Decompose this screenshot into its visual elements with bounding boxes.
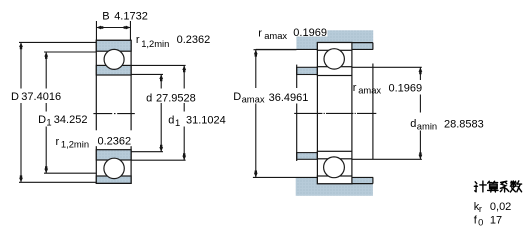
box d1 31.1024 (167, 112, 228, 127)
ball top (right figure) (324, 49, 344, 69)
d arrow up (159, 74, 163, 81)
shaft shoulder bottom-left (right figure) (297, 153, 318, 160)
D1 extension lines (44, 52, 96, 173)
svg-text:amax: amax (264, 30, 287, 41)
svg-text:0.1969: 0.1969 (293, 27, 327, 39)
svg-text:27.9528: 27.9528 (156, 92, 196, 104)
D1 arrow up (44, 52, 48, 59)
svg-text:36.4961: 36.4961 (269, 92, 309, 104)
char 计 (474, 181, 486, 192)
bearing body rect (317, 43, 352, 184)
d1 dimension line (183, 65, 185, 160)
svg-text:0.1969: 0.1969 (389, 82, 423, 94)
svg-text:0,02: 0,02 (490, 201, 511, 213)
svg-text:0.2362: 0.2362 (98, 135, 132, 147)
svg-text:r: r (258, 28, 262, 40)
svg-text:0: 0 (478, 217, 483, 228)
D arrow up (19, 42, 23, 49)
ball bottom (left figure) (104, 158, 124, 178)
d_a bottom line (right figure) (352, 158, 422, 160)
inner ring band top (317, 67, 352, 76)
svg-text:amax: amax (242, 94, 265, 105)
box damin 28.8583 (409, 113, 487, 131)
svg-text:1: 1 (175, 117, 180, 128)
Damax extension top (254, 49, 297, 51)
svg-text:D: D (11, 91, 19, 103)
damin arrow down (419, 152, 423, 159)
box r12min 0.2362 bottom (95, 130, 133, 146)
d_a top line (right figure) (352, 66, 422, 68)
svg-text:34.252: 34.252 (54, 114, 88, 126)
outer ring band bottom (blue) (96, 176, 131, 183)
char 数 (510, 181, 521, 192)
svg-text:amax: amax (358, 84, 381, 95)
svg-text:17: 17 (490, 215, 502, 227)
d dimension line (160, 74, 162, 151)
inner ring band bottom (317, 151, 352, 159)
svg-text:D: D (233, 91, 241, 103)
svg-text:28.8583: 28.8583 (444, 118, 484, 130)
D extension lines (19, 42, 96, 182)
svg-text:31.1024: 31.1024 (186, 114, 226, 126)
outer ring band top (317, 43, 352, 51)
box D1 34.252 (37, 112, 88, 127)
svg-text:r: r (56, 136, 60, 148)
box D 37.4016 (10, 89, 61, 104)
B arrow right (124, 26, 131, 30)
svg-text:r: r (136, 34, 140, 46)
d1 arrow up (182, 65, 186, 72)
housing block bottom (right figure) (296, 178, 373, 196)
svg-text:D: D (38, 114, 46, 126)
D1 dimension line (45, 52, 47, 173)
box r_amax 0.1969 middle (383, 80, 423, 95)
outer ring band bottom (317, 176, 352, 184)
housing bore line top-right (352, 42, 373, 44)
inner ring band top (blue) (96, 65, 131, 75)
housing shoulder line bottom (right figure) (253, 176, 373, 178)
svg-text:0.2362: 0.2362 (177, 34, 211, 46)
svg-text:d: d (168, 114, 174, 126)
CJK heading 计算系数 drawn as paths (474, 181, 521, 192)
box Damax 36.4961 (232, 88, 310, 104)
inner ring band bottom (blue) (96, 150, 131, 160)
char 算 (488, 181, 498, 192)
Damax arrow down (254, 171, 258, 178)
d extension lines (131, 74, 163, 151)
Damax arrow up (254, 50, 258, 57)
svg-text:1,2min: 1,2min (61, 139, 89, 150)
shaft face line right (right figure) (372, 64, 374, 160)
centerline right figure (294, 112, 376, 114)
B dimension line (96, 27, 130, 29)
shaft face line left (right figure) (296, 65, 298, 161)
svg-text:1: 1 (46, 117, 51, 128)
damin arrow up (419, 67, 423, 74)
shaft shoulder top-left (right figure) (297, 67, 318, 74)
outer ring band top (blue) (96, 40, 131, 51)
svg-text:d: d (410, 118, 416, 130)
B arrow left (96, 26, 103, 30)
D1 arrow down (44, 166, 48, 173)
svg-text:r: r (353, 82, 357, 94)
svg-text:1,2min: 1,2min (141, 38, 169, 49)
ball top (left figure) (104, 49, 124, 69)
box d 27.9528 (145, 89, 197, 104)
bearing body rect (96, 40, 131, 183)
D dimension line (20, 42, 22, 182)
housing band right edge segments (372, 43, 374, 184)
svg-text:37.4016: 37.4016 (21, 91, 61, 103)
svg-text:B: B (102, 11, 109, 23)
d1 arrow down (182, 153, 186, 160)
svg-text:d: d (146, 92, 152, 104)
housing block top (right figure) (296, 30, 373, 49)
housing bore line bottom-right (352, 183, 373, 185)
ball bottom (right figure) (324, 157, 345, 178)
svg-text:amin: amin (417, 121, 437, 132)
svg-text:4.1732: 4.1732 (114, 11, 148, 23)
d arrow down (159, 145, 163, 152)
D arrow down (19, 175, 23, 182)
svg-text:r: r (479, 203, 482, 214)
housing shoulder line top (right figure) (256, 48, 373, 50)
damin dimension line (419, 67, 421, 159)
centerline left figure (93, 113, 134, 115)
Damax dimension line (255, 50, 257, 178)
box 0.1969 top right figure (292, 27, 328, 37)
B extension lines (96, 21, 130, 40)
d1 extension lines (131, 65, 186, 160)
char 系 (500, 181, 508, 192)
